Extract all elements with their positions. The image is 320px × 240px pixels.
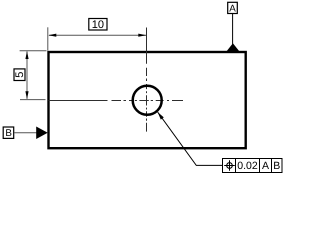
svg-text:A: A — [229, 3, 236, 14]
svg-text:B: B — [5, 128, 12, 139]
svg-text:B: B — [273, 160, 280, 172]
svg-text:5: 5 — [14, 72, 26, 78]
svg-text:A: A — [262, 160, 269, 172]
svg-text:10: 10 — [92, 19, 104, 31]
svg-text:0.02: 0.02 — [237, 160, 258, 172]
